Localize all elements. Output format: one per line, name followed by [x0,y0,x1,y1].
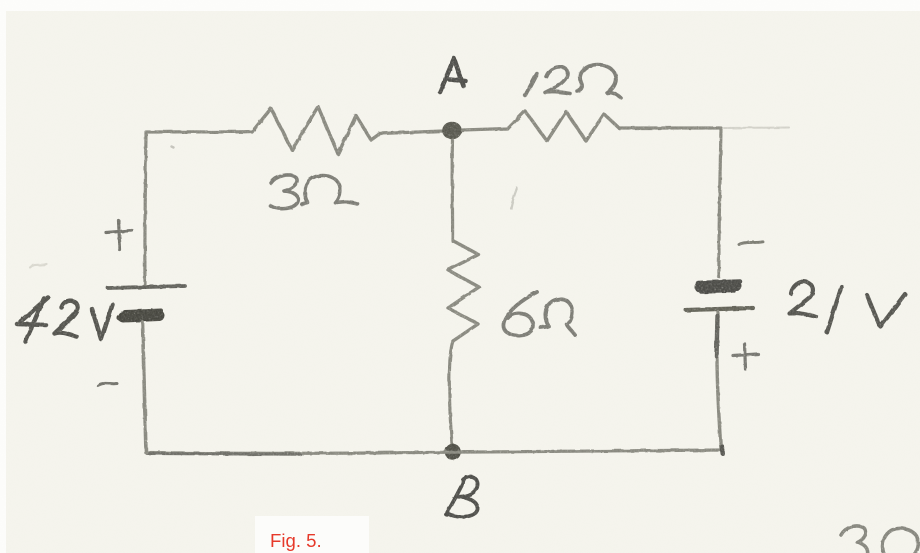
battery B2 positive plate (long thin) [686,308,753,310]
wire: right vertical lower [717,312,721,450]
label 21V value [790,282,906,333]
svg-text:Fig. 5.: Fig. 5. [270,530,322,551]
node B junction dot [445,444,461,460]
resistor R2 12ohm (zigzag) [508,111,619,141]
label 12ohm value [526,65,621,98]
battery B2 21V minus sign [739,242,763,245]
battery B1 negative plate (short thick) [120,311,162,318]
battery B1 positive plate (long thin) [108,286,185,288]
stray speck [172,147,174,148]
faint scan line beyond corner [724,127,789,130]
label 42V value [17,298,113,342]
label node A [440,59,466,93]
battery B1 minus sign [98,383,117,385]
battery B2 plus sign [733,344,758,370]
node A junction dot [442,122,462,140]
wire: left vertical lower [143,322,147,453]
label 3ohm value [270,175,358,209]
wire: node A down to 6ohm [451,140,455,241]
caption partial 3ohm bottom-right [841,526,918,553]
wire: 12ohm to top-right corner [619,126,721,129]
battery B1 plus sign [106,221,132,251]
resistor R3 6ohm (vertical zigzag) [448,241,479,341]
battery B2 negative plate (short thick) [698,282,740,293]
wire: bottom horizontal [146,450,724,453]
wire: left vertical upper [145,133,146,284]
wire: 3ohm to node A [380,131,443,134]
label node B [446,477,478,517]
wire: right vertical upper [719,129,721,277]
wire: 6ohm to node B [449,341,453,444]
wire: top-left horizontal segment [146,130,252,134]
wire: node A to 12ohm [462,129,508,131]
white label patch behind caption [255,516,369,553]
stray pencil squiggle [30,264,47,268]
label 6ohm value [503,292,575,336]
stray pencil slash [511,188,517,209]
resistor R1 3ohm (zigzag) [252,107,380,155]
